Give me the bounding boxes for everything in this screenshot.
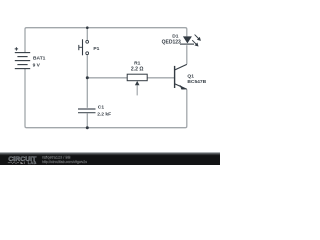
svg-text:http://circuitlab.com/c9gwv2s: http://circuitlab.com/c9gwv2s: [42, 160, 87, 164]
wire R1 wiper stub: [136, 85, 138, 95]
wire middle rail junction to R1: [87, 77, 127, 79]
svg-text:rafiqetra123 / BB: rafiqetra123 / BB: [42, 156, 71, 160]
wire capacitor bottom to bottom rail: [86, 113, 88, 127]
wire top rail: battery plus to LED anode: [25, 28, 187, 53]
transistor Q1: [175, 64, 187, 89]
svg-text:BC547B: BC547B: [187, 79, 206, 85]
wire bottom rail: battery minus along bottom to transistor emitter: [25, 69, 187, 128]
wire switch branch upper: [86, 28, 88, 41]
LED D1 cathode bar: [180, 43, 194, 45]
svg-text:2.2 Ω: 2.2 Ω: [131, 67, 144, 73]
svg-text:P1: P1: [93, 46, 99, 52]
svg-text:QED123: QED123: [162, 39, 181, 45]
push button P1: [79, 39, 89, 55]
node junction bottom rail / capacitor: [86, 126, 89, 129]
LED emission arrow 1: [195, 35, 201, 41]
node junction middle rail / capacitor: [86, 76, 89, 79]
wire switch to middle junction and capacitor: [86, 55, 88, 108]
svg-text:R1: R1: [134, 60, 141, 66]
battery BAT1: [15, 47, 31, 68]
node junction top rail / switch: [86, 26, 89, 29]
capacitor C1: [78, 109, 96, 113]
wiper arrowhead: [135, 81, 140, 85]
LED emission arrow 2: [192, 40, 198, 46]
svg-text:BAT1: BAT1: [33, 56, 46, 62]
transistor emitter arrowhead: [180, 86, 185, 90]
wire R1 to transistor base: [147, 77, 174, 79]
LED D1 triangle: [183, 36, 192, 43]
wire LED cathode to transistor collector: [186, 45, 188, 64]
svg-text:2.2 kF: 2.2 kF: [97, 111, 111, 117]
resistor R1 (trimmer box): [127, 74, 147, 81]
svg-text:C1: C1: [98, 105, 105, 111]
svg-text:Q1: Q1: [187, 74, 194, 80]
svg-text:9 V: 9 V: [33, 63, 41, 69]
svg-text:LAB: LAB: [28, 160, 37, 165]
